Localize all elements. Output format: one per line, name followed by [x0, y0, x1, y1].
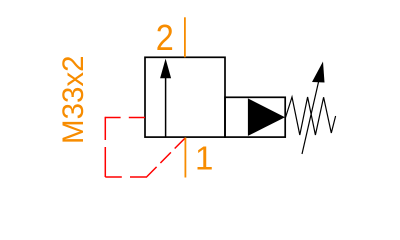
pilot line dash bottom-2 [130, 176, 146, 178]
pilot line dash left-2 [104, 147, 106, 177]
pilot line dash diag-3 [175, 138, 186, 149]
pilot line dash diag-1 [146, 167, 157, 178]
pilot line dash bottom-1 [105, 176, 122, 178]
flow arrow head [160, 59, 171, 79]
adjustment arrow shaft [302, 82, 319, 154]
pilot line dash left-1 [104, 117, 106, 140]
port 1 line [184, 138, 186, 178]
pilot triangle [248, 98, 285, 135]
spring [286, 97, 336, 135]
pilot box [225, 97, 285, 137]
port 2 line [184, 17, 186, 57]
main valve body box [145, 57, 225, 137]
pilot line dash diag-2 [160, 152, 171, 163]
pilot line dash top-2 [105, 117, 120, 119]
svg-text:2: 2 [156, 17, 174, 58]
pilot line dash top-1 [129, 117, 145, 119]
svg-text:M33x2: M33x2 [57, 55, 90, 144]
adjustment arrow head [312, 62, 325, 83]
flow arrow shaft [165, 77, 167, 137]
svg-text:1: 1 [195, 139, 213, 176]
